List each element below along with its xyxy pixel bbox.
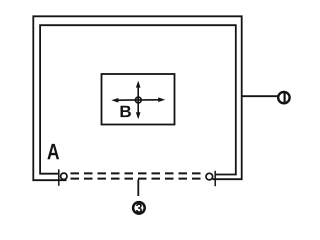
left pivot circle <box>61 173 67 179</box>
crosshair right arrowhead <box>158 97 165 102</box>
crosshair vertical line <box>137 85 139 115</box>
crosshair horizontal line <box>116 99 161 101</box>
crosshair center circle <box>135 97 141 103</box>
dashed line lower (fold line) <box>71 178 204 180</box>
right pivot circle <box>206 173 213 180</box>
callout circled 3 <box>133 202 145 214</box>
dashed line upper (fold line) <box>71 172 204 174</box>
digit 3 <box>136 203 142 212</box>
leader line to circled 3 <box>137 180 139 197</box>
right tick mark <box>214 171 216 186</box>
crosshair down arrowhead <box>136 112 141 119</box>
outer frame (panel outline), bottom edge open in middle <box>33 16 241 180</box>
left tick mark <box>58 169 60 186</box>
label B <box>120 106 130 117</box>
callout circled 1 <box>278 92 289 103</box>
box B outline <box>102 74 175 125</box>
label A <box>47 144 59 159</box>
crosshair up arrowhead <box>136 81 141 88</box>
leader line to circled 1 <box>242 95 278 97</box>
crosshair left arrowhead <box>111 98 118 103</box>
inner frame (screen outline), bottom edge open in middle <box>40 25 236 174</box>
digit 1 <box>284 93 286 103</box>
